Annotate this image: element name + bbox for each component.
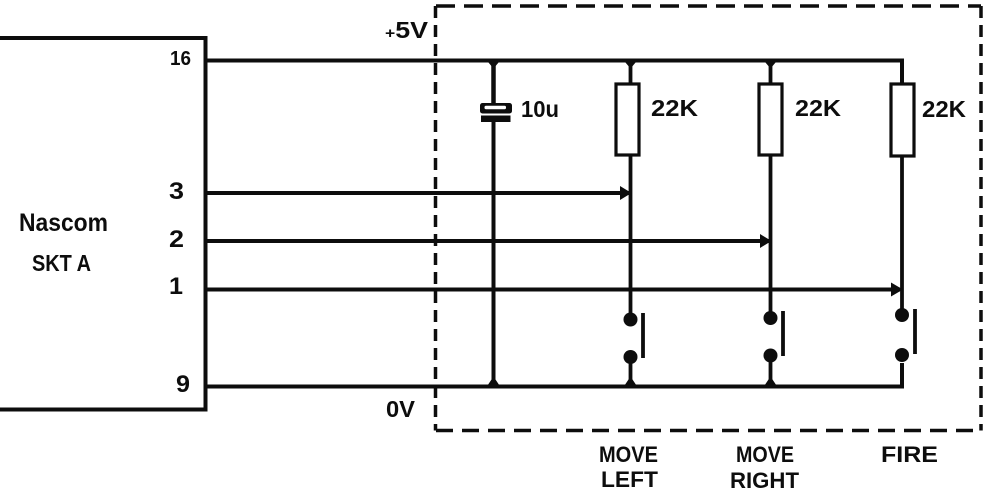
wire pin16 +5V rail [206, 61, 903, 85]
junction at +5V rail / R1 [623, 59, 639, 69]
svg-text:Nascom: Nascom [19, 209, 108, 237]
svg-text:MOVE: MOVE [736, 442, 794, 467]
svg-text:MOVE: MOVE [599, 442, 658, 467]
svg-text:16: 16 [170, 48, 191, 70]
junction pin3 to R1 line [620, 186, 632, 200]
wire pin2 [206, 239, 770, 243]
switch S1 MOVE LEFT [624, 313, 644, 387]
svg-text:9: 9 [176, 371, 190, 398]
resistor R3 22K [891, 84, 914, 315]
junction pin2 to R2 line [760, 234, 772, 248]
junction at +5V rail / capacitor [486, 59, 502, 69]
svg-text:1: 1 [169, 273, 183, 300]
svg-text:3: 3 [169, 178, 184, 205]
svg-text:22K: 22K [651, 95, 698, 121]
switch S2 MOVE RIGHT [764, 311, 784, 387]
dashed enclosure box [436, 6, 982, 431]
capacitor C1 10u [480, 61, 512, 387]
wire pin3 [206, 191, 630, 195]
svg-text:22K: 22K [795, 95, 841, 121]
svg-text:SKT A: SKT A [32, 250, 91, 276]
wire pin1 [206, 288, 901, 292]
resistor R1 22K [616, 61, 639, 320]
junction 0V rail / switch2 [763, 377, 779, 389]
switch S3 FIRE [895, 308, 915, 362]
Nascom SKTA connector box [0, 38, 206, 410]
svg-text:FIRE: FIRE [881, 442, 938, 467]
junction 0V rail / switch1 [623, 377, 639, 389]
svg-text:22K: 22K [922, 96, 966, 122]
resistor R2 22K [759, 61, 782, 319]
wire pin9 0V rail [206, 363, 903, 387]
junction at +5V rail / R2 [763, 59, 779, 69]
svg-text:0V: 0V [386, 396, 416, 422]
junction pin1 to FIRE line [891, 283, 903, 297]
svg-text:RIGHT: RIGHT [730, 468, 800, 493]
junction 0V rail / capacitor [486, 377, 502, 389]
svg-text:2: 2 [169, 226, 184, 253]
svg-text:10u: 10u [521, 96, 559, 122]
svg-text:LEFT: LEFT [601, 467, 659, 492]
